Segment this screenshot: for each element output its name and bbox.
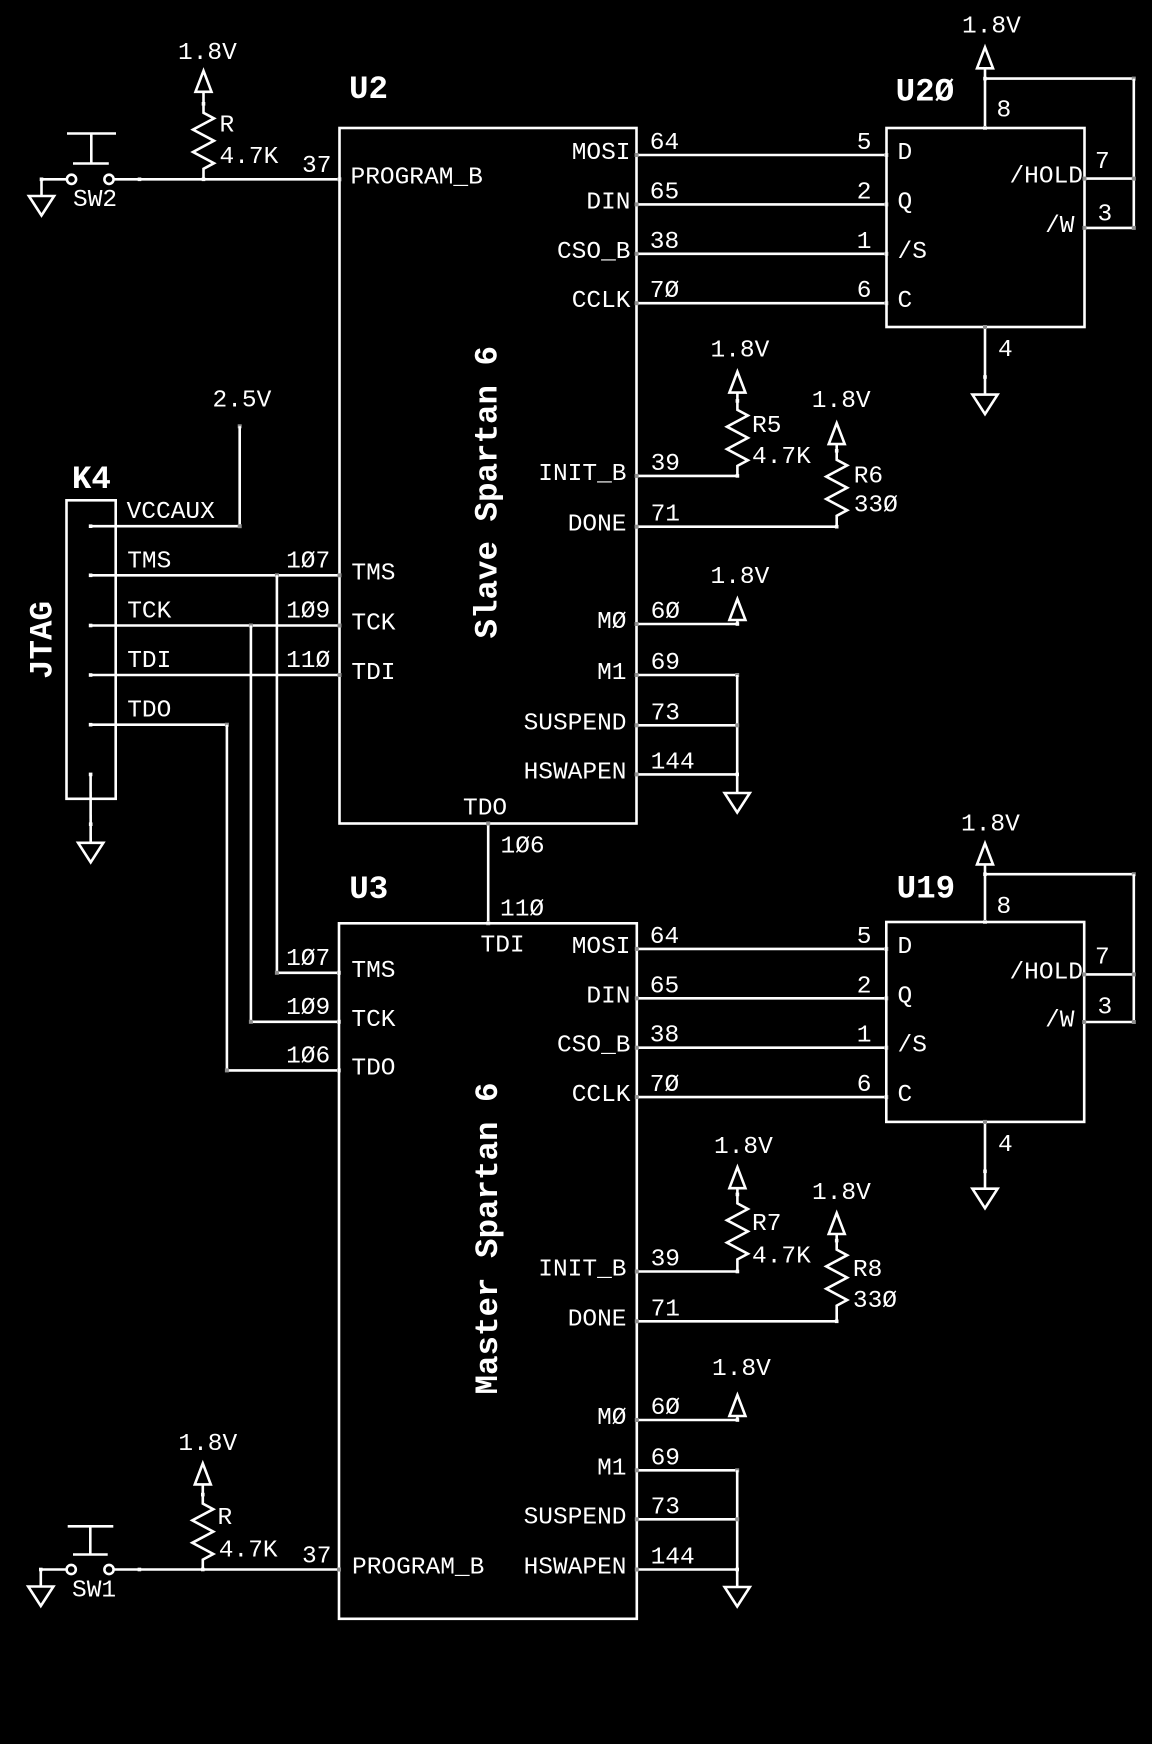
svg-text:MØ: MØ — [597, 1405, 626, 1432]
svg-text:3: 3 — [1098, 995, 1113, 1022]
pin U19.8 — [983, 920, 987, 924]
switch SW1 — [67, 1565, 76, 1574]
svg-text:PROGRAM_B: PROGRAM_B — [351, 164, 483, 191]
svg-text:37: 37 — [302, 153, 331, 180]
svg-text:1.8V: 1.8V — [178, 40, 237, 67]
svg-text:CSO_B: CSO_B — [557, 1033, 631, 1060]
svg-text:DIN: DIN — [586, 983, 630, 1010]
pin U2.60 — [635, 622, 639, 626]
svg-text:SW2: SW2 — [73, 187, 117, 214]
svg-text:2: 2 — [857, 973, 872, 1000]
svg-text:6Ø: 6Ø — [651, 599, 680, 626]
wire U20 pin 3 — [1085, 227, 1134, 230]
pin U2.144 — [635, 772, 639, 776]
svg-text:6Ø: 6Ø — [651, 1395, 680, 1422]
junction — [983, 77, 987, 81]
wire U2 pin 38 to U20 pin 1 — [637, 253, 887, 256]
svg-text:TDO: TDO — [351, 1055, 395, 1082]
wire SW2 to ground — [42, 178, 67, 181]
svg-text:TCK: TCK — [351, 1007, 395, 1034]
resistor R 4.7K (bottom) — [192, 1495, 213, 1570]
svg-text:39: 39 — [651, 451, 680, 478]
junction — [983, 872, 987, 876]
junction — [736, 1193, 740, 1197]
svg-text:D: D — [898, 140, 913, 167]
svg-text:MØ: MØ — [597, 609, 626, 636]
pin K4 TDI — [89, 673, 93, 677]
pin U2.39 — [635, 474, 639, 478]
wire 1.8V to HOLD/W — [985, 77, 1134, 80]
svg-text:U3: U3 — [349, 871, 388, 908]
junction — [735, 1517, 739, 1521]
pin U20.4 — [983, 325, 987, 329]
svg-text:6: 6 — [857, 278, 872, 305]
wire DONE — [637, 525, 837, 528]
svg-text:73: 73 — [651, 700, 680, 727]
svg-text:1Ø6: 1Ø6 — [501, 834, 545, 861]
pin U3.110 — [486, 921, 490, 925]
svg-text:33Ø: 33Ø — [853, 1288, 897, 1315]
wire HSWAPEN — [637, 773, 738, 776]
wire TCK net — [91, 624, 340, 627]
wire U19 pin 8 — [984, 874, 987, 922]
svg-text:7Ø: 7Ø — [650, 278, 679, 305]
svg-text:C: C — [898, 288, 913, 315]
svg-text:1: 1 — [857, 1023, 872, 1050]
junction — [835, 1239, 839, 1243]
corner — [735, 1468, 739, 1472]
svg-text:144: 144 — [651, 749, 695, 776]
svg-text:1.8V: 1.8V — [714, 1134, 773, 1161]
svg-text:1: 1 — [857, 229, 872, 256]
svg-text:Q: Q — [898, 189, 913, 216]
pin U3.73 — [635, 1517, 639, 1521]
svg-text:1.8V: 1.8V — [712, 1356, 771, 1383]
wire PROGRAM_B net (bottom) — [114, 1568, 339, 1571]
wire SUSPEND — [637, 1518, 737, 1521]
svg-text:71: 71 — [651, 1296, 680, 1323]
svg-text:R: R — [220, 113, 235, 140]
svg-text:VCCAUX: VCCAUX — [127, 499, 216, 526]
pin K4 VCCAUX — [89, 524, 93, 528]
pin U19.4 — [983, 1120, 987, 1124]
ground — [972, 395, 997, 415]
wire U2 pin 64 to U20 pin 5 — [637, 154, 887, 157]
wire TCK branch vertical — [250, 626, 253, 1022]
wire SW1 to ground — [41, 1568, 67, 1571]
svg-text:7Ø: 7Ø — [650, 1072, 679, 1099]
svg-text:Q: Q — [898, 983, 913, 1010]
svg-text:TDI: TDI — [481, 933, 525, 960]
wire TCK to U3 — [251, 1020, 339, 1023]
corner — [249, 1020, 253, 1024]
pin U3.109 — [337, 1020, 341, 1024]
junction — [735, 723, 739, 727]
IC U2 Slave Spartan 6 — [340, 128, 637, 824]
corner — [225, 1068, 229, 1072]
svg-text:4: 4 — [998, 1132, 1013, 1159]
wire — [1133, 874, 1136, 1022]
ground — [972, 1189, 997, 1209]
svg-text:1Ø9: 1Ø9 — [286, 995, 330, 1022]
svg-text:8: 8 — [997, 98, 1012, 125]
junction — [138, 178, 142, 182]
svg-text:1Ø9: 1Ø9 — [286, 599, 330, 626]
svg-text:D: D — [898, 934, 913, 961]
pin K4 TMS — [89, 574, 93, 578]
wire SUSPEND — [637, 724, 738, 727]
junction TCK branch — [249, 624, 253, 628]
wire TDI net — [91, 674, 340, 677]
pin U2.69 — [635, 673, 639, 677]
svg-text:JTAG: JTAG — [25, 601, 62, 679]
pin U3.69 — [635, 1468, 639, 1472]
wire U3 pin 64 to U19 pin 5 — [637, 948, 887, 951]
svg-text:1Ø6: 1Ø6 — [286, 1043, 330, 1070]
wire M0 — [637, 1419, 738, 1422]
svg-text:33Ø: 33Ø — [854, 493, 898, 520]
junction — [39, 1568, 43, 1572]
svg-text:144: 144 — [651, 1544, 695, 1571]
svg-text:64: 64 — [650, 924, 679, 951]
pin U2.107 — [338, 573, 342, 577]
IC U19 flash — [886, 922, 1084, 1122]
junction — [983, 375, 987, 379]
svg-text:1.8V: 1.8V — [961, 811, 1020, 838]
resistor R7 4.7K — [727, 1194, 748, 1271]
svg-text:TDO: TDO — [463, 796, 507, 823]
svg-text:7: 7 — [1095, 149, 1110, 176]
wire TDO U2 to TDI U3 — [487, 824, 490, 924]
svg-text:R7: R7 — [752, 1211, 781, 1238]
svg-text:HSWAPEN: HSWAPEN — [524, 1554, 627, 1581]
svg-text:/S: /S — [898, 1033, 927, 1060]
svg-text:38: 38 — [650, 1023, 679, 1050]
pin K4 gnd — [89, 773, 93, 777]
svg-text:TMS: TMS — [127, 548, 171, 575]
svg-text:U2: U2 — [349, 71, 388, 108]
svg-text:65: 65 — [650, 973, 679, 1000]
wire HSWAPEN — [637, 1568, 737, 1571]
pin U3.71 — [635, 1319, 639, 1323]
svg-text:69: 69 — [651, 1445, 680, 1472]
wire U19 pin 4 to ground — [984, 1122, 987, 1189]
svg-text:4.7K: 4.7K — [752, 444, 811, 471]
svg-text:6: 6 — [857, 1072, 872, 1099]
junction — [736, 622, 740, 626]
svg-text:CSO_B: CSO_B — [557, 239, 631, 266]
node 2.5V — [238, 424, 242, 428]
svg-text:/HOLD: /HOLD — [1009, 959, 1083, 986]
corner — [238, 524, 242, 528]
wire TMS branch vertical — [276, 575, 279, 973]
svg-text:73: 73 — [651, 1494, 680, 1521]
svg-text:TCK: TCK — [351, 611, 395, 638]
svg-text:U2Ø: U2Ø — [896, 74, 955, 111]
junction — [138, 1568, 142, 1572]
wire TDO net — [91, 723, 227, 726]
wire 1.8V to HOLD/W — [985, 873, 1134, 876]
svg-text:DIN: DIN — [586, 189, 630, 216]
svg-text:/W: /W — [1045, 213, 1075, 240]
pin U2.106 — [486, 822, 490, 826]
wire TMS net — [91, 574, 340, 577]
svg-text:TMS: TMS — [351, 560, 395, 587]
junction — [835, 449, 839, 453]
svg-text:2.5V: 2.5V — [213, 388, 272, 415]
svg-text:4.7K: 4.7K — [220, 144, 279, 171]
svg-text:71: 71 — [651, 502, 680, 529]
wire U19 pin 7 — [1084, 973, 1134, 976]
svg-text:DONE: DONE — [568, 512, 627, 539]
wire U20 pin 8 — [984, 79, 987, 128]
svg-text:TCK: TCK — [127, 599, 171, 626]
svg-text:4: 4 — [998, 337, 1013, 364]
junction — [835, 525, 839, 529]
switch SW2 — [67, 175, 76, 184]
resistor R6 330 — [826, 451, 847, 527]
svg-text:65: 65 — [650, 179, 679, 206]
svg-text:MOSI: MOSI — [572, 140, 631, 167]
svg-text:37: 37 — [302, 1544, 331, 1571]
corner — [225, 723, 229, 727]
svg-text:K4: K4 — [72, 461, 111, 498]
wire PROGRAM_B net (top) — [114, 178, 340, 181]
svg-text:R: R — [218, 1505, 233, 1532]
svg-text:M1: M1 — [597, 1455, 626, 1482]
pin U3.60 — [635, 1418, 639, 1422]
svg-text:DONE: DONE — [568, 1306, 627, 1333]
junction — [202, 178, 206, 182]
junction — [736, 1270, 740, 1274]
svg-text:U19: U19 — [897, 870, 956, 907]
svg-text:69: 69 — [651, 650, 680, 677]
pin U2.110 — [338, 673, 342, 677]
svg-text:CCLK: CCLK — [572, 288, 631, 315]
svg-text:/HOLD: /HOLD — [1009, 164, 1083, 191]
svg-text:1Ø7: 1Ø7 — [286, 548, 330, 575]
pin U2.71 — [635, 525, 639, 529]
pin U20.8 — [983, 126, 987, 130]
svg-text:11Ø: 11Ø — [286, 648, 330, 675]
pin U3.37 — [337, 1568, 341, 1572]
wire M0 — [637, 623, 738, 626]
ground — [725, 793, 750, 813]
svg-text:Slave Spartan 6: Slave Spartan 6 — [470, 346, 507, 639]
svg-text:HSWAPEN: HSWAPEN — [524, 759, 627, 786]
svg-text:2: 2 — [857, 179, 872, 206]
corner — [735, 673, 739, 677]
wire M1 — [637, 674, 738, 677]
junction — [736, 1418, 740, 1422]
corner — [1132, 77, 1136, 81]
resistor R5 4.7K — [727, 401, 748, 476]
svg-text:R8: R8 — [853, 1257, 882, 1284]
ground — [78, 843, 103, 863]
svg-text:5: 5 — [857, 924, 872, 951]
svg-text:1.8V: 1.8V — [812, 388, 871, 415]
wire U19 pin 3 — [1084, 1021, 1134, 1024]
junction — [201, 1568, 205, 1572]
IC U3 Master Spartan 6 — [339, 923, 637, 1619]
svg-text:MOSI: MOSI — [572, 934, 631, 961]
wire — [1133, 79, 1136, 228]
svg-text:TMS: TMS — [351, 958, 395, 985]
resistor R 4.7K (top) — [193, 104, 214, 180]
wire INIT_B — [637, 475, 738, 478]
wire TDO to U3 — [227, 1069, 339, 1072]
svg-text:M1: M1 — [597, 660, 626, 687]
ground — [725, 1587, 750, 1607]
svg-text:TDI: TDI — [351, 660, 395, 687]
svg-text:TDI: TDI — [127, 648, 171, 675]
svg-text:INIT_B: INIT_B — [538, 1257, 626, 1284]
pin U2.37 — [338, 177, 342, 181]
wire 2.5V to VCCAUX — [238, 426, 241, 526]
junction — [40, 178, 44, 182]
svg-text:R6: R6 — [854, 464, 883, 491]
junction — [735, 773, 739, 777]
pin U3.144 — [635, 1568, 639, 1572]
svg-text:INIT_B: INIT_B — [538, 461, 626, 488]
svg-text:7: 7 — [1095, 944, 1110, 971]
wire M1/SUSPEND/HSWAPEN to ground — [736, 675, 739, 793]
wire VCCAUX — [91, 525, 240, 528]
svg-text:1.8V: 1.8V — [962, 14, 1021, 41]
wire U3 pin 70 to U19 pin 6 — [637, 1096, 887, 1099]
corner — [1132, 872, 1136, 876]
wire U3 pin 38 to U19 pin 1 — [637, 1046, 887, 1049]
svg-text:/S: /S — [898, 239, 927, 266]
wire U20 pin 4 to ground — [984, 327, 987, 395]
svg-text:SUSPEND: SUSPEND — [524, 1504, 627, 1531]
svg-text:SUSPEND: SUSPEND — [524, 710, 627, 737]
svg-text:4.7K: 4.7K — [219, 1538, 278, 1565]
resistor R8 330 — [826, 1241, 847, 1322]
pin U3.107 — [337, 971, 341, 975]
wire U2 pin 70 to U20 pin 6 — [637, 302, 887, 305]
svg-text:SW1: SW1 — [72, 1578, 116, 1605]
connector K4 JTAG — [67, 500, 116, 799]
svg-text:8: 8 — [997, 894, 1012, 921]
svg-text:Master Spartan 6: Master Spartan 6 — [470, 1082, 507, 1394]
junction — [736, 399, 740, 403]
junction — [89, 822, 93, 826]
svg-text:64: 64 — [650, 130, 679, 157]
pin U3.106 — [337, 1068, 341, 1072]
svg-text:R5: R5 — [752, 413, 781, 440]
wire TMS to U3 — [277, 971, 339, 974]
ground — [29, 196, 54, 216]
corner — [275, 971, 279, 975]
svg-text:39: 39 — [651, 1247, 680, 1274]
wire TDO vertical — [226, 725, 229, 1071]
pin U2.73 — [635, 723, 639, 727]
wire U20 pin 7 — [1085, 177, 1134, 180]
svg-text:1.8V: 1.8V — [178, 1431, 237, 1458]
svg-text:PROGRAM_B: PROGRAM_B — [352, 1555, 484, 1582]
wire M1 — [637, 1469, 737, 1472]
junction — [735, 1568, 739, 1572]
junction — [835, 1320, 839, 1324]
wire U2 pin 65 to U20 pin 2 — [637, 203, 887, 206]
svg-text:1.8V: 1.8V — [812, 1180, 871, 1207]
junction TMS branch — [275, 573, 279, 577]
pin K4 TCK — [89, 624, 93, 628]
wire INIT_B — [637, 1270, 738, 1273]
svg-text:1Ø7: 1Ø7 — [286, 946, 330, 973]
wire — [40, 179, 43, 196]
junction — [201, 1493, 205, 1497]
junction — [983, 1170, 987, 1174]
junction — [736, 474, 740, 478]
wire U3 pin 65 to U19 pin 2 — [637, 997, 887, 1000]
junction — [202, 102, 206, 106]
svg-text:3: 3 — [1098, 202, 1113, 229]
wire M1/SUSPEND/HSWAPEN to ground — [736, 1470, 739, 1587]
svg-text:C: C — [898, 1082, 913, 1109]
pin K4 TDO — [89, 723, 93, 727]
wire — [39, 1570, 42, 1587]
svg-text:1.8V: 1.8V — [711, 564, 770, 591]
svg-text:11Ø: 11Ø — [500, 897, 544, 924]
svg-text:4.7K: 4.7K — [752, 1244, 811, 1271]
svg-text:TDO: TDO — [127, 698, 171, 725]
ground — [28, 1587, 53, 1607]
pin U3.39 — [635, 1270, 639, 1274]
svg-text:CCLK: CCLK — [572, 1082, 631, 1109]
IC U20 flash — [887, 128, 1085, 327]
svg-text:/W: /W — [1045, 1007, 1075, 1034]
wire DONE — [637, 1320, 837, 1323]
svg-text:5: 5 — [857, 130, 872, 157]
pin U2.109 — [338, 624, 342, 628]
svg-text:38: 38 — [650, 229, 679, 256]
svg-text:1.8V: 1.8V — [711, 337, 770, 364]
